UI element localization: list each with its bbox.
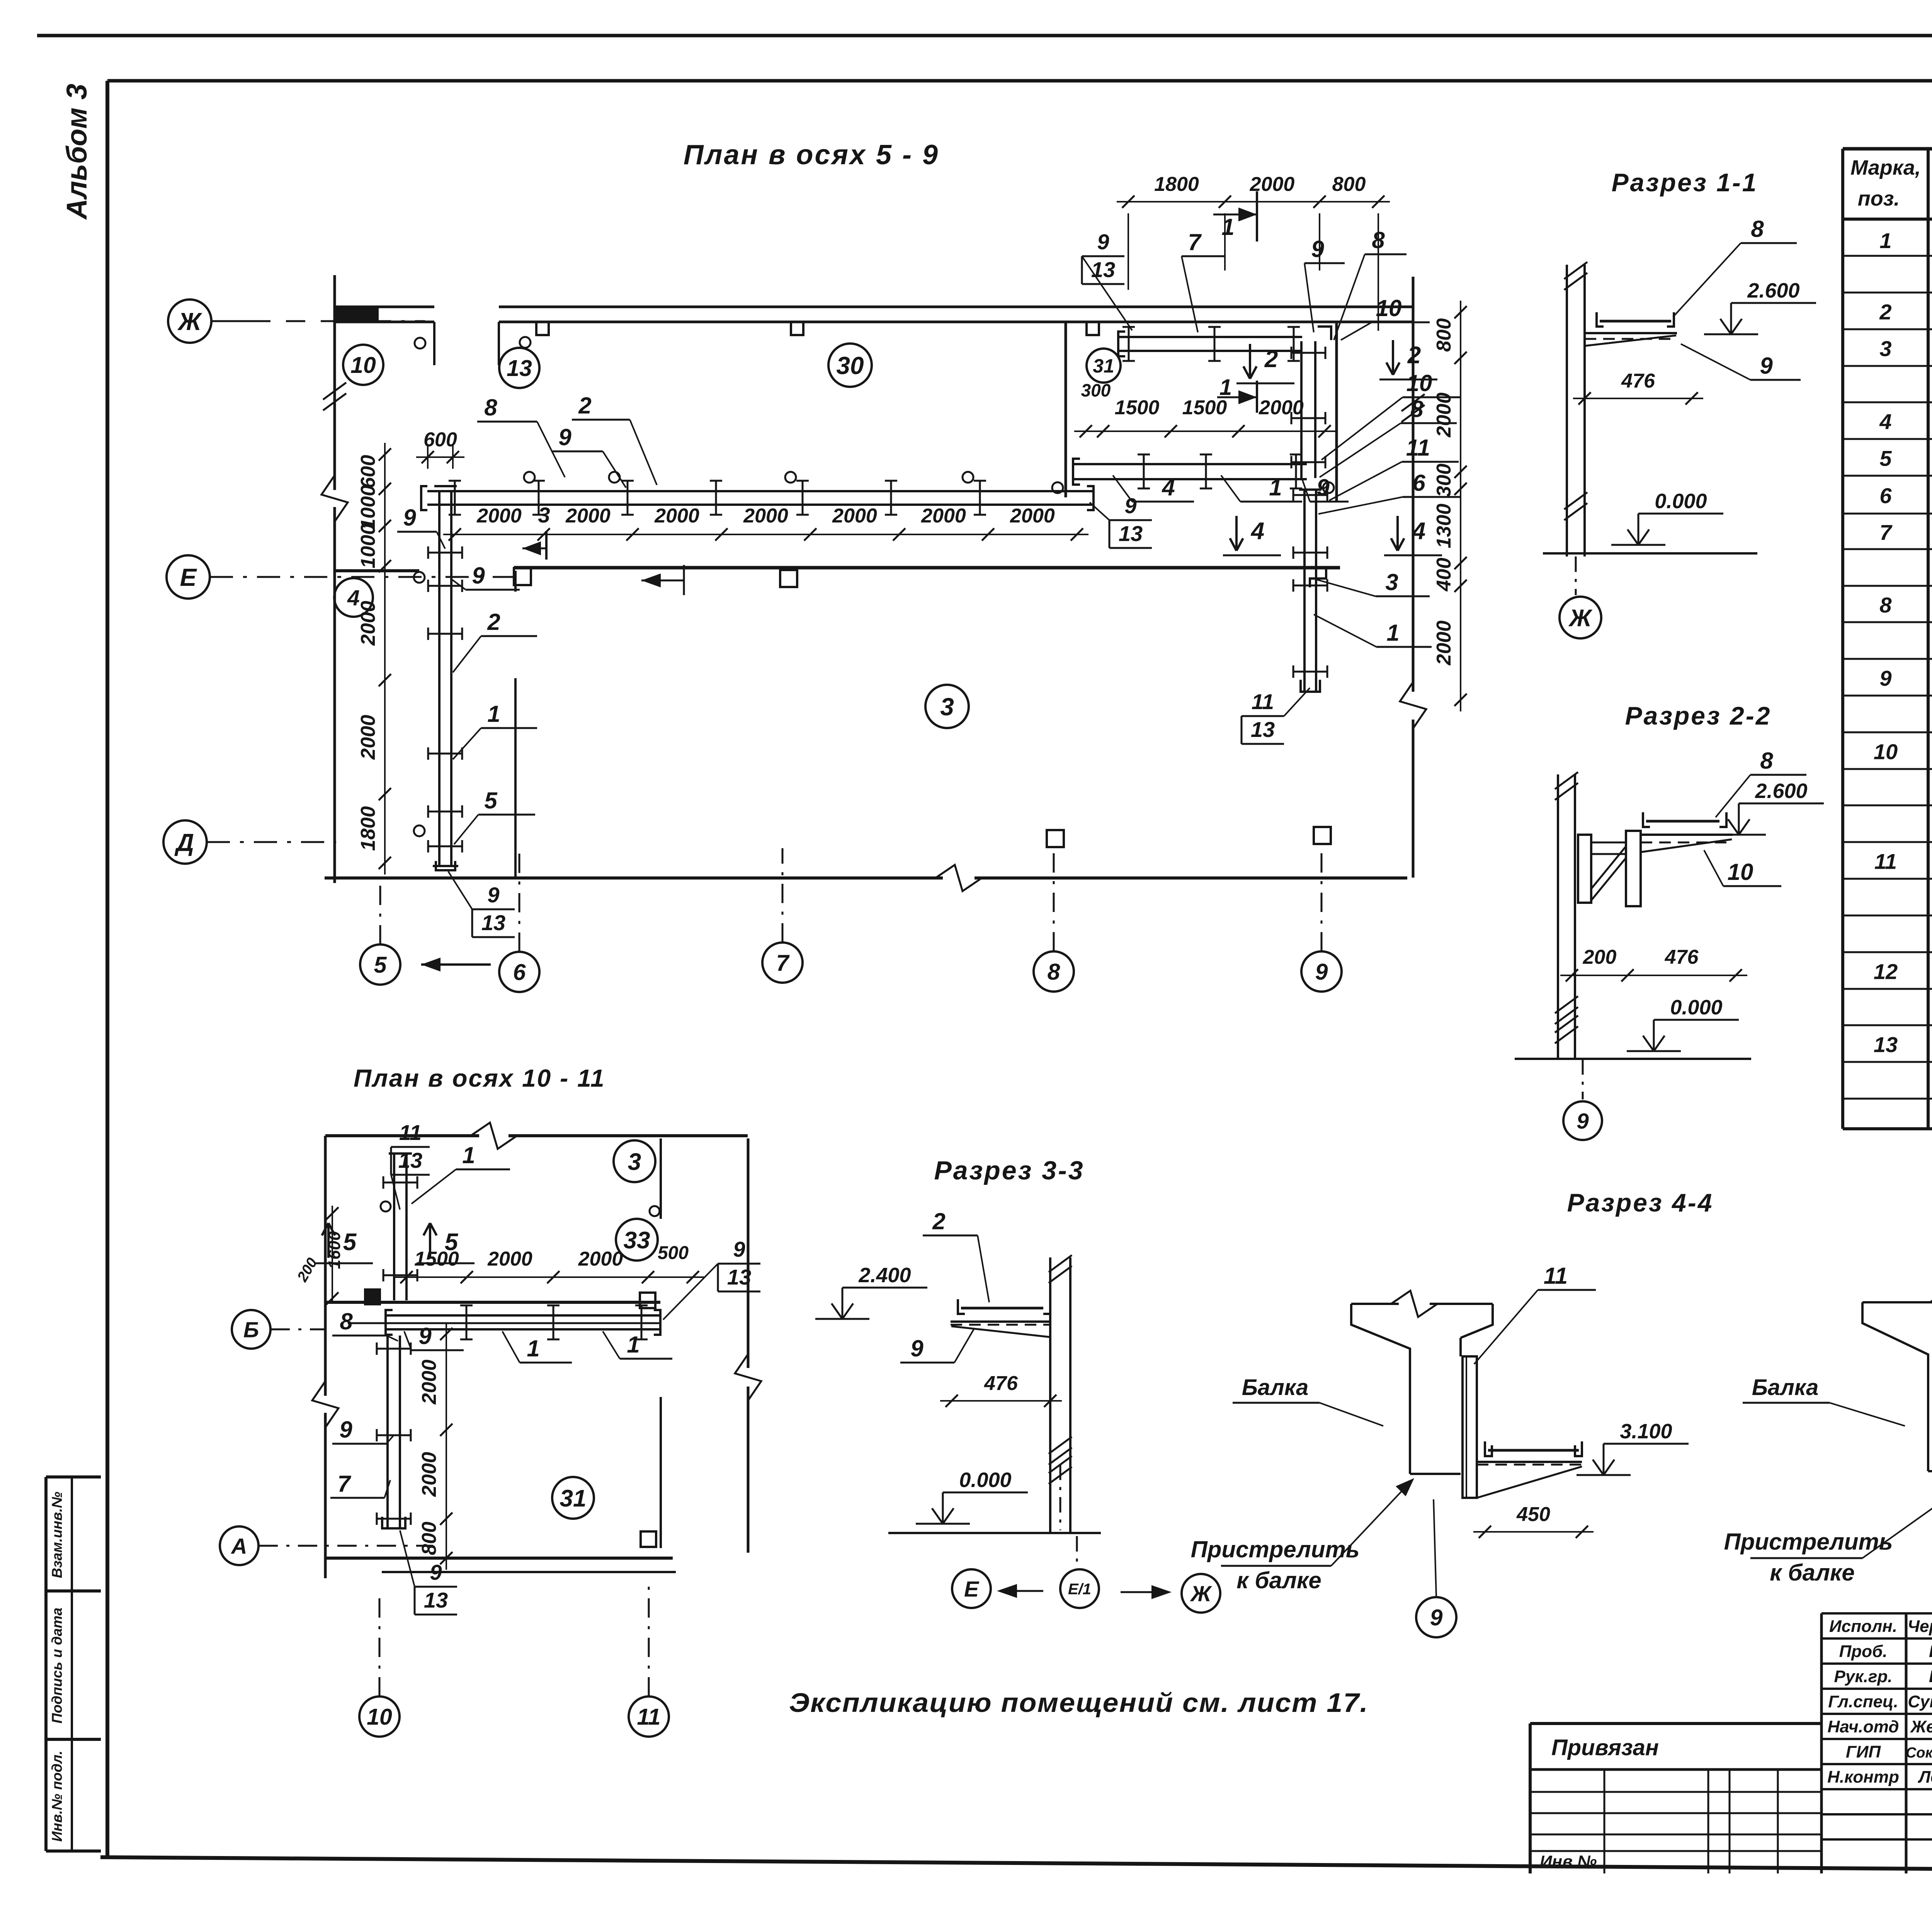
vertical tray run 1 [438,492,440,866]
svg-text:1: 1 [487,701,500,727]
tray tick [1293,671,1327,673]
section1-1 tray [1600,320,1671,323]
tray tick [715,481,717,515]
plan1011 A wall [325,1557,673,1560]
svg-text:1300: 1300 [1433,504,1455,548]
section3-3 wall [1049,1257,1051,1533]
svg-text:8: 8 [1410,396,1423,422]
section4-4 beam [1351,1303,1399,1305]
svg-text:Привязан: Привязан [1551,1735,1659,1760]
svg-text:31: 31 [560,1485,587,1512]
room bubble 3 plan1011 [614,1140,655,1182]
svg-text:1800: 1800 [1154,173,1199,196]
section3-3 axis bubbles [1076,1536,1078,1569]
svg-text:Б: Б [243,1318,259,1342]
svg-text:Разрез 2-2: Разрез 2-2 [1625,701,1772,730]
column squares on E wall [514,568,531,585]
svg-text:1: 1 [1879,228,1891,253]
axis B bubble [232,1310,270,1349]
arrow between 5 and 6 [421,963,491,966]
svg-text:Разрез 3-3: Разрез 3-3 [934,1156,1084,1185]
svg-text:Исполн.: Исполн. [1829,1617,1897,1636]
room 31 bottom tray [1073,463,1307,465]
svg-text:7: 7 [337,1471,351,1497]
svg-text:2000: 2000 [743,505,788,527]
svg-text:Брюм: Брюм [1929,1667,1932,1686]
svg-text:Лебская: Лебская [1918,1768,1932,1786]
tray tick [627,481,629,515]
section2-2 dims 200 476 [1560,975,1747,976]
svg-text:Е: Е [964,1577,980,1602]
svg-text:2000: 2000 [565,505,611,527]
svg-text:11: 11 [1544,1263,1568,1289]
left stamp column boxes [46,1475,101,1479]
svg-text:10: 10 [1728,859,1753,885]
grid bubble 11 [629,1696,669,1737]
svg-text:Д: Д [174,829,194,856]
svg-text:Разрез 4-4: Разрез 4-4 [1567,1188,1714,1217]
svg-text:Альбом 3: Альбом 3 [61,84,93,220]
svg-text:1: 1 [527,1336,539,1361]
section3-3 tray [961,1307,1043,1310]
plan1011 squares [640,1293,655,1308]
svg-text:2000: 2000 [357,715,379,760]
svg-text:11: 11 [1406,435,1430,461]
section2-2 ground [1515,1058,1751,1060]
svg-text:13: 13 [424,1588,448,1612]
axis A bubble [220,1526,259,1565]
plan1011 top wall [325,1134,479,1137]
section2-2 bracket [1578,835,1591,903]
svg-text:Е/1: Е/1 [1068,1581,1091,1598]
axis D wall [325,876,943,880]
corner bracket pieces [1318,327,1331,340]
svg-text:2000: 2000 [487,1248,532,1270]
room bubble 31 [1087,349,1121,383]
plan1011 inner wall right [660,1138,662,1219]
svg-text:2000: 2000 [1259,396,1304,419]
svg-text:13: 13 [507,356,532,381]
plan right wall [1412,277,1415,692]
room31 dim chain [1074,430,1336,432]
tray tick [428,633,462,635]
svg-text:9: 9 [910,1336,923,1361]
svg-text:6: 6 [1879,483,1892,508]
frame left border [105,81,109,1857]
svg-text:2000: 2000 [1010,505,1055,527]
svg-text:2: 2 [1879,300,1891,324]
tray tick [1293,552,1327,554]
svg-text:11: 11 [637,1704,660,1730]
axis E [167,555,210,599]
tray tick [428,585,462,587]
sheet inner top line [107,79,1932,83]
svg-text:Проб.: Проб. [1839,1642,1888,1661]
section2-2 tray [1646,820,1719,823]
svg-text:Инв.№ подл.: Инв.№ подл. [49,1751,65,1842]
left vertical dim chain [384,443,386,875]
section4-4 tray [1488,1449,1579,1452]
svg-text:600: 600 [357,455,379,488]
wall hatch marks [323,383,346,400]
svg-text:1: 1 [1386,620,1399,646]
svg-text:2000: 2000 [476,505,522,527]
frame bottom border [100,1857,1932,1873]
circles near tray run 1 [414,572,425,583]
svg-text:9: 9 [339,1417,352,1443]
svg-text:Ж: Ж [1568,605,1593,631]
tray tick [1293,494,1327,496]
tray tick [454,481,456,515]
svg-text:5: 5 [484,788,498,813]
room bubble 13 [499,348,539,388]
tray tick [802,481,804,515]
svg-text:Ж: Ж [1190,1582,1213,1606]
hanger stubs below Zh wall [536,322,549,335]
room 31 right tray [1300,341,1303,478]
axis Zh wall left segment [335,306,434,308]
section mark 1 room31 [1256,381,1258,413]
title block signature table [1821,1612,1932,1615]
grid bubble 8 [1034,951,1074,992]
dim 600 top left [416,456,464,458]
section5-5 beam [1862,1301,1932,1303]
svg-text:6: 6 [513,960,526,985]
svg-text:Нач.отд: Нач.отд [1827,1717,1899,1736]
svg-text:План в осях 10 - 11: План в осях 10 - 11 [354,1064,605,1092]
svg-text:4: 4 [1412,518,1425,544]
svg-text:2: 2 [1407,342,1421,369]
svg-text:8: 8 [1372,227,1385,253]
section4-4 channel [1463,1356,1477,1498]
svg-text:13: 13 [727,1265,751,1289]
section2-2 axis bubble 9 [1582,1059,1584,1099]
svg-text:9: 9 [1097,230,1109,254]
svg-text:7: 7 [1879,520,1893,544]
room bubble 30 [828,344,872,387]
svg-text:9: 9 [430,1560,442,1584]
svg-text:План в осях 5 - 9: План в осях 5 - 9 [684,140,939,170]
grid bubble 9 [1301,951,1342,992]
svg-text:Н.контр: Н.контр [1827,1768,1899,1786]
svg-text:3: 3 [538,503,550,527]
svg-text:500: 500 [658,1243,689,1263]
tray tick [428,552,462,554]
room 3 left wall [514,571,517,592]
svg-text:9: 9 [1311,236,1324,262]
svg-text:Экспликацию помещений см. л: Экспликацию помещений см. лист 17. [789,1688,1369,1718]
svg-text:Марка,: Марка, [1850,156,1921,179]
svg-text:13: 13 [481,910,505,935]
tray tick [428,846,462,847]
svg-text:1000: 1000 [357,524,379,568]
svg-text:9: 9 [1430,1605,1443,1630]
svg-text:2.600: 2.600 [1755,779,1807,803]
section4-4 dim 450 [1473,1531,1594,1533]
tray tick [979,481,981,515]
svg-text:9: 9 [1315,959,1328,985]
svg-text:Жевнеров: Жевнеров [1910,1717,1932,1736]
svg-text:Балка: Балка [1752,1375,1818,1400]
svg-text:9: 9 [1124,493,1136,518]
svg-text:2000: 2000 [654,505,699,527]
svg-text:30: 30 [836,352,864,379]
svg-text:476: 476 [1665,946,1699,968]
svg-text:1: 1 [462,1142,475,1168]
svg-text:7: 7 [776,950,790,976]
svg-text:2000: 2000 [832,505,877,527]
svg-text:31: 31 [1093,355,1114,377]
svg-text:Брюм: Брюм [1929,1642,1932,1661]
axis D [163,820,207,864]
svg-text:9: 9 [1879,666,1891,691]
main 2000 chain [443,534,1088,535]
svg-text:600: 600 [423,429,457,451]
svg-text:1800: 1800 [357,806,379,851]
spec table grid [1843,147,1932,151]
svg-text:2000: 2000 [1433,393,1455,438]
svg-text:к балке: к балке [1770,1560,1854,1586]
axis E wall left part [335,569,419,572]
svg-text:2000: 2000 [1433,621,1455,666]
svg-text:13: 13 [398,1148,422,1172]
svg-text:Инв.№: Инв.№ [1540,1852,1597,1871]
room bubble 33 plan1011 [616,1219,658,1261]
room bubble 31 plan1011 [552,1477,594,1519]
svg-text:3: 3 [628,1148,641,1175]
view arrow below chain [683,565,685,595]
tray tick [890,481,892,515]
svg-text:10: 10 [1376,295,1402,321]
grid bubble 7 [762,943,803,983]
svg-text:Гл.спец.: Гл.спец. [1828,1692,1898,1711]
sheet outer top line [37,34,1932,37]
wall stub below Zh [433,322,435,365]
section mark 3 flag [545,531,548,560]
svg-text:1: 1 [627,1332,639,1358]
svg-text:2: 2 [487,609,500,635]
svg-text:5: 5 [374,952,387,978]
svg-text:11: 11 [399,1120,422,1145]
tray tick [538,481,540,515]
axis Zh wall main segment [499,306,1414,308]
svg-text:Взам.инв.№: Взам.инв.№ [49,1492,65,1578]
svg-text:Е: Е [180,563,197,591]
svg-text:400: 400 [1433,558,1455,592]
svg-text:0.000: 0.000 [1670,996,1722,1019]
svg-text:2: 2 [932,1208,945,1234]
svg-text:800: 800 [418,1522,440,1555]
svg-text:2.400: 2.400 [858,1264,911,1287]
svg-text:3.100: 3.100 [1620,1420,1672,1443]
svg-text:1: 1 [1269,475,1282,500]
svg-text:2000: 2000 [418,1359,440,1405]
svg-text:2000: 2000 [418,1452,440,1497]
svg-text:Пристрелить: Пристрелить [1724,1529,1893,1555]
svg-text:1500: 1500 [1115,396,1160,419]
svg-text:поз.: поз. [1858,187,1900,210]
svg-text:8: 8 [484,395,497,420]
plan1011 B wall [325,1301,660,1304]
section1-1 axis bubble Zh [1575,556,1577,595]
svg-text:11: 11 [1874,849,1897,874]
svg-text:13: 13 [1874,1033,1898,1057]
section mark 1 top [1256,191,1258,242]
svg-text:2: 2 [578,393,591,419]
grid bubble 6 [499,952,539,992]
section1-1 dim 476 [1573,398,1703,399]
svg-text:4: 4 [1162,475,1175,500]
svg-text:Разрез 1-1: Разрез 1-1 [1612,168,1758,197]
svg-text:9: 9 [487,883,499,907]
svg-text:300: 300 [1433,464,1455,497]
svg-text:к балке: к балке [1236,1567,1321,1593]
svg-text:Балка: Балка [1242,1375,1308,1400]
svg-text:33: 33 [624,1227,650,1254]
tray tick [428,753,462,755]
section4-4 bubble 9 [1434,1499,1436,1596]
svg-text:3: 3 [1879,337,1891,361]
svg-text:9: 9 [403,505,416,531]
grid bubble 5 [360,944,400,985]
svg-text:9: 9 [1577,1109,1589,1134]
plan1011 dim chain horizontal [395,1276,704,1278]
vertical tray run 2 (grid 9) [1303,490,1306,691]
svg-text:10: 10 [350,352,376,378]
svg-text:5: 5 [1879,446,1892,471]
svg-text:1000: 1000 [357,485,379,530]
svg-text:0.000: 0.000 [959,1468,1011,1492]
svg-text:9: 9 [418,1323,432,1349]
section1-1 ground [1543,552,1757,555]
room 31 top tray [1118,336,1302,338]
section1-1 wall [1566,265,1568,556]
grid bubble 10 [359,1696,400,1737]
svg-text:Пристрелить: Пристрелить [1191,1536,1360,1562]
svg-text:9: 9 [1760,353,1773,379]
svg-text:0.000: 0.000 [1655,490,1707,513]
left wall vertical [333,275,336,490]
svg-text:9: 9 [472,563,485,589]
svg-text:9: 9 [558,424,571,450]
svg-text:2000: 2000 [578,1248,623,1270]
svg-text:Соколовский: Соколовский [1906,1745,1932,1761]
door circles on Zh wall [415,338,425,349]
svg-text:7: 7 [1188,229,1202,255]
svg-text:Ж: Ж [177,308,202,335]
axis E wall [514,566,1340,570]
svg-text:13: 13 [1119,521,1143,546]
room 31 left wall [1065,323,1067,497]
section3-3 dim 476 [940,1400,1062,1402]
plan1011 tray vertical upper [393,1154,395,1300]
svg-text:800: 800 [1332,173,1366,196]
svg-text:450: 450 [1516,1503,1550,1526]
svg-text:9: 9 [1316,475,1330,500]
svg-text:3: 3 [940,693,954,721]
tray tick [1293,585,1327,587]
svg-text:300: 300 [1081,380,1111,400]
svg-text:10: 10 [1406,370,1432,396]
svg-text:9: 9 [733,1237,745,1261]
svg-text:Червонная: Червонная [1908,1617,1932,1636]
svg-text:Рук.гр.: Рук.гр. [1834,1667,1893,1686]
svg-text:2.600: 2.600 [1747,279,1799,302]
svg-text:2000: 2000 [921,505,966,527]
svg-text:3: 3 [1385,569,1398,595]
section2-2 wall [1557,774,1559,1059]
svg-text:Супрунова: Супрунова [1908,1692,1932,1711]
svg-text:4: 4 [1879,410,1891,434]
svg-text:200: 200 [1583,946,1617,968]
svg-text:1: 1 [1221,214,1234,240]
axis 4 bubble [334,578,373,617]
privyazan table [1530,1722,1821,1725]
column squares row D [1047,830,1064,847]
room bubble 10 [343,345,383,385]
plan1011 left wall [324,1136,327,1396]
plan1011 tray horizontal [386,1314,660,1317]
axis Zh [168,299,211,343]
svg-text:476: 476 [1621,370,1655,392]
room 31 right inner wall [1335,323,1338,502]
section3-3 ground [888,1532,1101,1534]
room bubble 3 [925,685,969,728]
svg-text:2000: 2000 [357,601,379,646]
svg-text:8: 8 [1760,748,1773,774]
svg-text:Подпись и дата: Подпись и дата [49,1608,65,1724]
svg-text:10: 10 [1874,740,1898,764]
svg-text:А: А [230,1534,247,1559]
plan1011 tray vertical lower [386,1336,389,1527]
plan1011 right wall [747,1138,750,1368]
svg-text:5: 5 [343,1229,357,1256]
plan1011 dim chain vertical [446,1322,447,1570]
svg-text:4: 4 [1250,518,1264,544]
svg-text:8: 8 [340,1308,353,1334]
svg-text:10: 10 [367,1704,392,1730]
svg-text:11: 11 [1252,689,1274,714]
dim chain top right 1800/2000/800 [1117,201,1390,202]
svg-text:476: 476 [984,1372,1018,1395]
tray tick [428,811,462,813]
svg-text:5: 5 [445,1229,459,1256]
svg-text:8: 8 [1879,593,1892,617]
svg-text:13: 13 [1251,717,1275,742]
svg-text:8: 8 [1048,959,1060,985]
right vertical dim chain [1460,301,1461,711]
svg-text:1: 1 [1219,375,1232,400]
svg-text:6: 6 [1412,470,1425,496]
svg-text:13: 13 [1091,257,1115,282]
svg-text:800: 800 [1433,318,1455,352]
svg-text:ГИП: ГИП [1846,1742,1881,1761]
horizontal tray run E [427,490,1094,492]
svg-text:2: 2 [1264,346,1278,373]
svg-text:12: 12 [1874,960,1898,984]
svg-text:8: 8 [1751,216,1764,242]
